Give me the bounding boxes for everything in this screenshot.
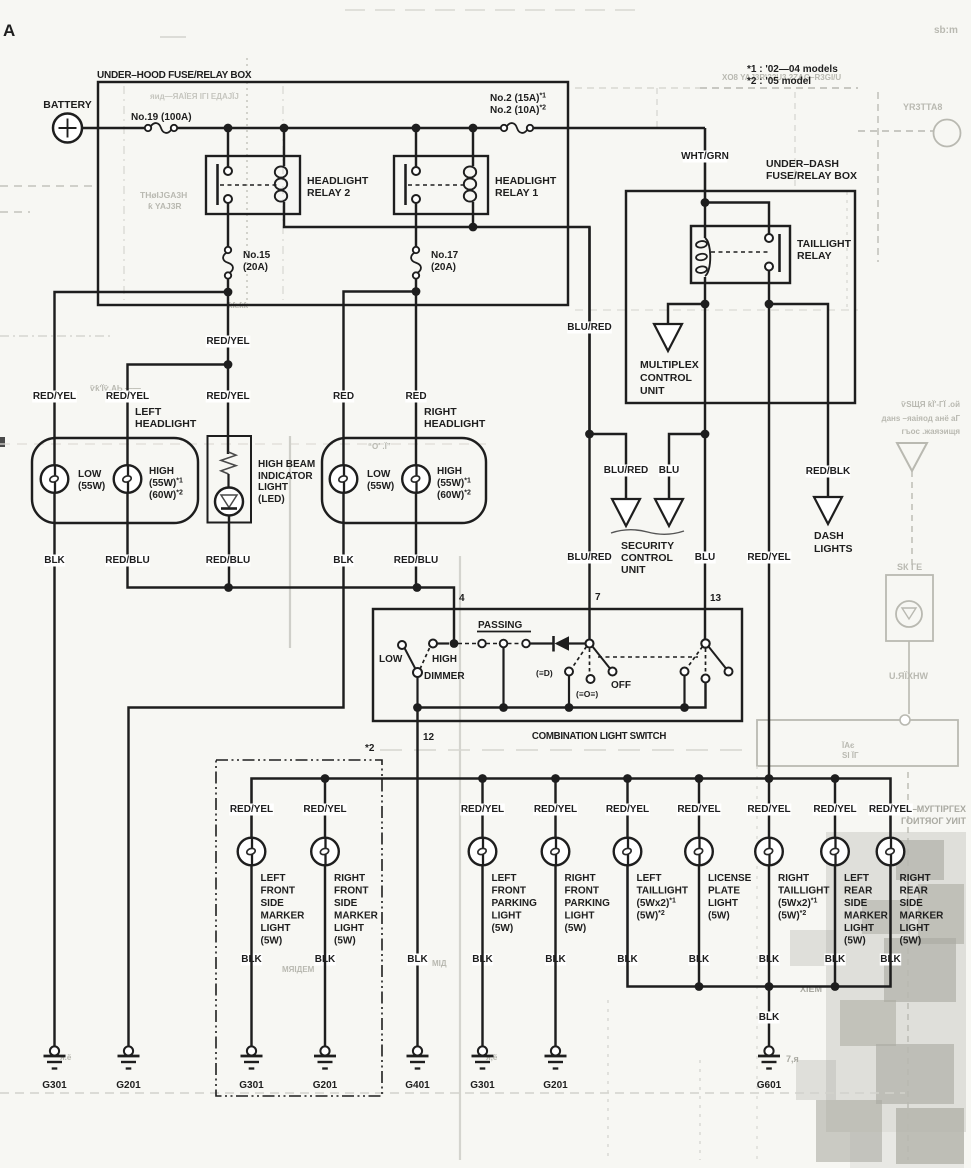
gang dashes	[598, 656, 698, 658]
dash-dot option box *2	[216, 760, 382, 1096]
svg-text:(55W): (55W)	[78, 481, 105, 492]
junction	[450, 639, 459, 648]
junction	[765, 774, 774, 783]
svg-text:13: 13	[710, 593, 722, 604]
label RED	[405, 391, 426, 403]
svg-text:LEFT: LEFT	[135, 406, 162, 418]
junction	[321, 774, 330, 783]
fuse No.17 (20A)	[413, 247, 419, 253]
wire RED/YEL main	[227, 292, 229, 365]
label RED/BLU	[206, 555, 251, 567]
wire BLU to terminal 13	[704, 434, 706, 640]
wire BLK to G601	[768, 987, 770, 1047]
fuse No.2 (15A/10A)	[501, 125, 507, 131]
svg-text:LOW: LOW	[379, 654, 403, 665]
svg-text:(5Wx2)*1: (5Wx2)*1	[778, 898, 818, 910]
svg-text:RIGHT: RIGHT	[565, 873, 596, 884]
junction	[412, 287, 421, 296]
svg-text:G301: G301	[470, 1080, 495, 1091]
svg-text:я.ё: я.ё	[60, 1053, 72, 1062]
svg-text:(5W)*2: (5W)*2	[637, 910, 665, 922]
left high bulb	[114, 465, 142, 493]
svg-text:“O′ .Ї”: “O′ .Ї”	[368, 442, 391, 451]
junction	[469, 124, 478, 133]
svg-text:RED/BLU: RED/BLU	[206, 555, 250, 566]
wire terminal 12 to G401	[416, 708, 418, 1047]
svg-text:LEFT: LEFT	[492, 873, 517, 884]
svg-text:BLK: BLK	[759, 1012, 780, 1023]
label BLU	[658, 465, 679, 477]
svg-text:MULTIPLEX: MULTIPLEX	[640, 359, 699, 371]
svg-text:LIGHT: LIGHT	[844, 923, 874, 934]
svg-text:RED/YEL: RED/YEL	[461, 804, 504, 815]
wire	[768, 779, 770, 839]
svg-text:(60W)*2: (60W)*2	[437, 490, 471, 502]
wire	[481, 779, 483, 839]
wire	[683, 676, 685, 708]
svg-text:CONTROL: CONTROL	[640, 372, 692, 384]
taillight relay	[705, 203, 769, 235]
junction	[623, 774, 632, 783]
lighting switch terminal 7	[586, 640, 594, 648]
junction	[565, 703, 574, 712]
wire BLK right low to G201	[129, 493, 344, 1047]
wire	[534, 127, 705, 130]
svg-text:SECURITY: SECURITY	[621, 540, 674, 552]
svg-text:(5W): (5W)	[261, 936, 283, 947]
svg-text:COMBINATION LIGHT SWITCH: COMBINATION LIGHT SWITCH	[532, 731, 666, 742]
junction	[413, 583, 422, 592]
wire RED/YEL taillight feed	[768, 304, 770, 779]
svg-text:BLU/RED: BLU/RED	[567, 322, 611, 333]
svg-text:(5W): (5W)	[334, 936, 356, 947]
svg-text:RELAY 1: RELAY 1	[495, 187, 538, 199]
svg-text:REAR: REAR	[900, 886, 929, 897]
svg-text:FUSE/RELAY BOX: FUSE/RELAY BOX	[766, 170, 857, 182]
label RED/YEL	[32, 391, 77, 403]
svg-text:МЯІДЕМ: МЯІДЕМ	[282, 965, 315, 974]
svg-text:RED/BLU: RED/BLU	[105, 555, 149, 566]
svg-text:REAR: REAR	[844, 886, 873, 897]
junction	[478, 774, 487, 783]
svg-text:FRONT: FRONT	[261, 886, 295, 897]
svg-text:LIGHT: LIGHT	[708, 898, 738, 909]
dimmer switch	[429, 640, 437, 648]
svg-text:ГОИТЯОГ УИІТ: ГОИТЯОГ УИІТ	[901, 816, 966, 826]
wire BLU main	[704, 304, 706, 434]
wire	[698, 865, 700, 987]
svg-text:RELAY: RELAY	[797, 250, 832, 262]
wire WHT/GRN	[704, 128, 707, 203]
svg-text:(5W): (5W)	[844, 936, 866, 947]
wire	[437, 642, 449, 644]
svg-text:PARKING: PARKING	[565, 898, 611, 909]
junction	[695, 982, 704, 991]
ground G301	[478, 1046, 487, 1055]
wire RED/BLU right high	[415, 493, 417, 588]
svg-text:RED/YEL: RED/YEL	[747, 552, 790, 563]
svg-text:BLU: BLU	[659, 465, 680, 476]
label RED/YEL	[813, 804, 858, 816]
junction	[831, 982, 840, 991]
svg-text:7: 7	[595, 592, 601, 603]
svg-text:SIDE: SIDE	[261, 898, 285, 909]
svg-text:UNDER–HOOD FUSE/RELAY BOX: UNDER–HOOD FUSE/RELAY BOX	[97, 70, 252, 81]
wire RED/YEL to LED	[227, 365, 229, 455]
wire RED/YEL to left low	[55, 292, 229, 466]
junction	[701, 300, 710, 309]
svg-text:LIGHT: LIGHT	[565, 911, 595, 922]
bulb left front parking light	[469, 838, 497, 866]
svg-text:BLU: BLU	[695, 552, 716, 563]
bulb left taillight	[614, 838, 642, 866]
wire	[227, 203, 229, 246]
label BLK	[314, 954, 335, 966]
wire	[324, 779, 326, 839]
svg-text:RIGHT: RIGHT	[900, 873, 931, 884]
svg-text:(5W): (5W)	[708, 911, 730, 922]
svg-text:(55W)*1: (55W)*1	[437, 478, 471, 490]
svg-text:RED/YEL: RED/YEL	[534, 804, 577, 815]
svg-text:HIGH: HIGH	[432, 654, 457, 665]
svg-text:RED/YEL: RED/YEL	[869, 804, 912, 815]
bulb left rear side marker light	[821, 838, 849, 866]
ground G201	[124, 1046, 133, 1055]
wire	[502, 648, 504, 708]
svg-text:No.2 (15A)*1: No.2 (15A)*1	[490, 93, 546, 105]
svg-text:SIDE: SIDE	[334, 898, 358, 909]
svg-text:LICENSE: LICENSE	[708, 873, 752, 884]
svg-text:LIGHT: LIGHT	[900, 923, 930, 934]
wire RED/YEL switch out	[768, 271, 770, 305]
wire RED/BLU bus	[128, 493, 455, 644]
svg-text:RED/YEL: RED/YEL	[747, 804, 790, 815]
junction	[765, 982, 774, 991]
junction	[224, 360, 233, 369]
svg-text:(≡D): (≡D)	[536, 668, 553, 678]
svg-text:HEADLIGHT: HEADLIGHT	[424, 418, 486, 430]
bleed-through artifacts	[0, 437, 5, 447]
svg-text:FRONT: FRONT	[334, 886, 368, 897]
svg-text:BLU/RED: BLU/RED	[567, 552, 611, 563]
headlight relay 1 U-R1	[415, 130, 417, 167]
svg-text:RED/YEL: RED/YEL	[106, 391, 149, 402]
label BLU/RED	[567, 552, 612, 564]
svg-text:TAILLIGHT: TAILLIGHT	[797, 238, 852, 250]
label RED/YEL	[229, 804, 274, 816]
label RED	[333, 391, 354, 403]
ground G401	[413, 1046, 422, 1055]
svg-text:No.19 (100A): No.19 (100A)	[131, 112, 192, 123]
svg-text:RIGHT: RIGHT	[424, 406, 457, 418]
label RED/YEL	[206, 391, 251, 403]
under-hood fuse/relay box	[98, 82, 568, 305]
svg-text:HEADLIGHT: HEADLIGHT	[135, 418, 197, 430]
wire	[284, 202, 590, 434]
bulb right taillight	[755, 838, 783, 866]
svg-text:4: 4	[459, 593, 465, 604]
svg-text:(20A): (20A)	[431, 262, 456, 273]
diode D1	[552, 636, 555, 652]
wire	[768, 865, 770, 987]
label BLK	[688, 954, 709, 966]
label RED/YEL	[677, 804, 722, 816]
svg-text:(5W): (5W)	[900, 936, 922, 947]
label BLU	[694, 552, 715, 564]
wire BLU/RED main	[588, 227, 590, 434]
junction	[701, 430, 710, 439]
label BLU/RED	[567, 322, 612, 334]
svg-text:UNIT: UNIT	[640, 385, 665, 397]
label BLK	[824, 954, 845, 966]
svg-text:PLATE: PLATE	[708, 886, 740, 897]
wire	[569, 642, 586, 644]
svg-text:LEFT: LEFT	[261, 873, 286, 884]
svg-text:*1 : '02—04 models: *1 : '02—04 models	[747, 64, 838, 75]
junction	[224, 288, 233, 297]
svg-text:я,ё: я,ё	[486, 1053, 498, 1062]
svg-text:BLK: BLK	[44, 555, 65, 566]
label RED/BLK	[806, 466, 851, 478]
ground G301	[50, 1046, 59, 1055]
svg-text:данѕ –яаіяод анё аГ: данѕ –яаіяод анё аГ	[881, 414, 960, 423]
wire RED/BLK	[769, 304, 828, 497]
svg-text:гъос .жаяэищя: гъос .жаяэищя	[902, 427, 961, 436]
svg-text:RED/YEL: RED/YEL	[33, 391, 76, 402]
label BLK	[617, 954, 638, 966]
svg-text:LIGHTS: LIGHTS	[814, 543, 853, 555]
label BLK	[407, 954, 428, 966]
wire	[834, 865, 836, 987]
label RED/YEL	[747, 804, 792, 816]
svg-text:DASH: DASH	[814, 530, 844, 542]
svg-text:G301: G301	[42, 1080, 67, 1091]
junction	[224, 124, 233, 133]
svg-text:G201: G201	[116, 1080, 141, 1091]
svg-text:HIGH BEAM: HIGH BEAM	[258, 459, 315, 470]
svg-text:LIGHT: LIGHT	[261, 923, 291, 934]
label RED/YEL	[605, 804, 650, 816]
svg-text:UNDER–DASH: UNDER–DASH	[766, 158, 839, 170]
svg-text:МІД: МІД	[432, 959, 447, 968]
svg-text:TAILLIGHT: TAILLIGHT	[637, 886, 688, 897]
junction	[701, 198, 710, 207]
right high bulb	[402, 465, 430, 493]
multiplex control unit	[654, 324, 682, 351]
label RED/BLU	[105, 555, 150, 567]
svg-text:MARKER: MARKER	[900, 911, 945, 922]
wire front marker/parking grounds	[250, 865, 252, 1046]
svg-text:YR3TTA8: YR3TTA8	[903, 102, 942, 112]
svg-text:яид—ЯАЇЕЯ ІГІ ЕДАЈЇЈ: яид—ЯАЇЕЯ ІГІ ЕДАЈЇЈ	[150, 92, 239, 101]
svg-text:LIGHT: LIGHT	[334, 923, 364, 934]
label BLU/RED	[604, 465, 649, 477]
svg-text:BLU/RED: BLU/RED	[604, 465, 648, 476]
svg-text:CONTROL: CONTROL	[621, 552, 673, 564]
svg-text:G301: G301	[239, 1080, 264, 1091]
wire	[554, 779, 556, 839]
svg-text:FRONT: FRONT	[492, 886, 526, 897]
junction	[680, 703, 689, 712]
svg-text:UNIT: UNIT	[621, 564, 646, 576]
security control unit	[612, 499, 640, 526]
svg-text:RED/YEL: RED/YEL	[813, 804, 856, 815]
label RED/YEL	[533, 804, 578, 816]
left headlight	[32, 438, 198, 523]
svg-text:RED/YEL: RED/YEL	[230, 804, 273, 815]
svg-text:ƙ YAJ3R: ƙ YAJ3R	[148, 201, 182, 211]
svg-text:FRONT: FRONT	[565, 886, 599, 897]
label BLK	[545, 954, 566, 966]
svg-text:INDICATOR: INDICATOR	[258, 471, 313, 482]
junction	[551, 774, 560, 783]
wire BLU/RED to terminal 7	[588, 434, 590, 640]
svg-text:PASSING: PASSING	[478, 620, 522, 631]
svg-text:HIGH: HIGH	[149, 466, 174, 477]
junction	[413, 703, 422, 712]
svg-text:BLK: BLK	[333, 555, 354, 566]
svg-text:ЅК ГЕ: ЅК ГЕ	[897, 562, 922, 572]
label RED/YEL	[303, 804, 348, 816]
svg-text:OFF: OFF	[611, 680, 631, 691]
svg-text:G201: G201	[543, 1080, 568, 1091]
right low bulb	[330, 465, 358, 493]
wire RED to right low	[344, 292, 417, 466]
svg-text:U.ЯЇХHW: U.ЯЇХHW	[889, 671, 928, 681]
label BLK	[758, 1012, 779, 1024]
svg-text:RED: RED	[405, 391, 426, 402]
label BLK	[241, 954, 262, 966]
wire main bus	[178, 127, 500, 130]
wire rear ground bus	[628, 865, 891, 987]
svg-text:RED/YEL: RED/YEL	[303, 804, 346, 815]
wire BLK left low to G301	[53, 493, 55, 1047]
svg-text:DIMMER: DIMMER	[424, 671, 465, 682]
svg-text:BATTERY: BATTERY	[43, 99, 91, 111]
svg-text:WHT/GRN: WHT/GRN	[681, 151, 729, 162]
svg-text:HEADLIGHT: HEADLIGHT	[495, 175, 557, 187]
label BLK	[44, 555, 65, 567]
svg-text:(20A): (20A)	[243, 262, 268, 273]
wire	[82, 127, 144, 130]
svg-text:ЅІ ЇГ: ЅІ ЇГ	[842, 751, 859, 760]
headlight relay 2 U-R2	[227, 130, 229, 167]
svg-text:THøIJGA3H: THøIJGA3H	[140, 190, 187, 200]
right headlight	[322, 438, 486, 523]
wire RED/YEL feed bus	[252, 779, 891, 839]
svg-text:HIGH: HIGH	[437, 466, 462, 477]
svg-text:7,я: 7,я	[786, 1054, 799, 1064]
junction	[469, 223, 478, 232]
svg-text:(LED): (LED)	[258, 494, 285, 505]
svg-text:MARKER: MARKER	[844, 911, 889, 922]
svg-text:(5W): (5W)	[565, 923, 587, 934]
junction	[224, 583, 233, 592]
wire BLU branch	[669, 434, 705, 499]
wire	[568, 676, 570, 708]
svg-text:(≡O≡): (≡O≡)	[576, 689, 598, 699]
junction	[765, 300, 774, 309]
svg-text:No.17: No.17	[431, 250, 459, 261]
svg-text:TAILLIGHT: TAILLIGHT	[778, 886, 829, 897]
under-dash fuse/relay box	[626, 191, 855, 403]
left low bulb	[41, 465, 69, 493]
svg-text:MARKER: MARKER	[261, 911, 306, 922]
bulb license plate light	[685, 838, 713, 866]
high beam indicator light (LED)	[208, 436, 252, 523]
wire	[834, 779, 836, 839]
fuse No.15 (20A)	[225, 247, 231, 253]
svg-text:LOW: LOW	[78, 469, 102, 480]
svg-text:ѷЅЩЯ ƙЇ′-ГЇ .ой: ѷЅЩЯ ƙЇ′-ГЇ .ой	[901, 400, 960, 409]
label BLK	[472, 954, 493, 966]
bulb right front parking light	[542, 838, 570, 866]
label RED/BLU	[394, 555, 439, 567]
svg-text:RED: RED	[333, 391, 354, 402]
junction	[499, 703, 508, 712]
wire	[415, 278, 417, 292]
bulb left front side marker light	[238, 838, 266, 866]
fuse No.19 (100A)	[145, 125, 151, 131]
combination light switch	[373, 609, 742, 721]
svg-text:sb:m: sb:m	[934, 25, 958, 36]
junction	[695, 774, 704, 783]
svg-text:G601: G601	[757, 1080, 782, 1091]
svg-text:RED/BLK: RED/BLK	[806, 466, 851, 477]
label RED/YEL	[105, 391, 150, 403]
ground G201	[551, 1046, 560, 1055]
wire	[626, 779, 628, 839]
svg-text:*2: *2	[365, 743, 375, 754]
wire BLU/RED branch	[590, 434, 627, 499]
svg-text:RED/YEL: RED/YEL	[206, 336, 249, 347]
wire	[472, 202, 474, 227]
svg-text:(5Wx2)*1: (5Wx2)*1	[637, 898, 677, 910]
svg-text:HEADLIGHT: HEADLIGHT	[307, 175, 369, 187]
svg-text:12: 12	[423, 732, 435, 743]
bulb right front side marker light	[311, 838, 339, 866]
svg-text:*2 : '05 model: *2 : '05 model	[747, 76, 811, 87]
label BLK	[758, 954, 779, 966]
svg-text:RED/YEL: RED/YEL	[677, 804, 720, 815]
ground G601	[764, 1046, 773, 1055]
wire	[227, 278, 229, 292]
wire	[698, 779, 700, 839]
svg-text:BLK: BLK	[407, 954, 428, 965]
battery BAT	[53, 114, 82, 143]
svg-text:RELAY 2: RELAY 2	[307, 187, 350, 199]
wire switch ground bus	[418, 683, 706, 708]
label RED/YEL	[206, 336, 251, 348]
svg-text:SIDE: SIDE	[900, 898, 924, 909]
svg-text:RED/YEL: RED/YEL	[606, 804, 649, 815]
svg-text:LEFT: LEFT	[844, 873, 869, 884]
svg-text:MARKER: MARKER	[334, 911, 379, 922]
junction	[831, 774, 840, 783]
junction	[280, 124, 289, 133]
label RED/YEL	[460, 804, 505, 816]
svg-text:RED/YEL: RED/YEL	[206, 391, 249, 402]
svg-text:A: A	[3, 21, 15, 40]
svg-text:(55W)*1: (55W)*1	[149, 478, 183, 490]
label RED/YEL	[747, 552, 792, 564]
svg-text:RIGHT: RIGHT	[334, 873, 365, 884]
wire	[530, 642, 554, 644]
svg-text:No.15: No.15	[243, 250, 271, 261]
label BLK	[333, 555, 354, 567]
svg-text:SIDE: SIDE	[844, 898, 868, 909]
svg-text:LIGHT: LIGHT	[492, 911, 522, 922]
